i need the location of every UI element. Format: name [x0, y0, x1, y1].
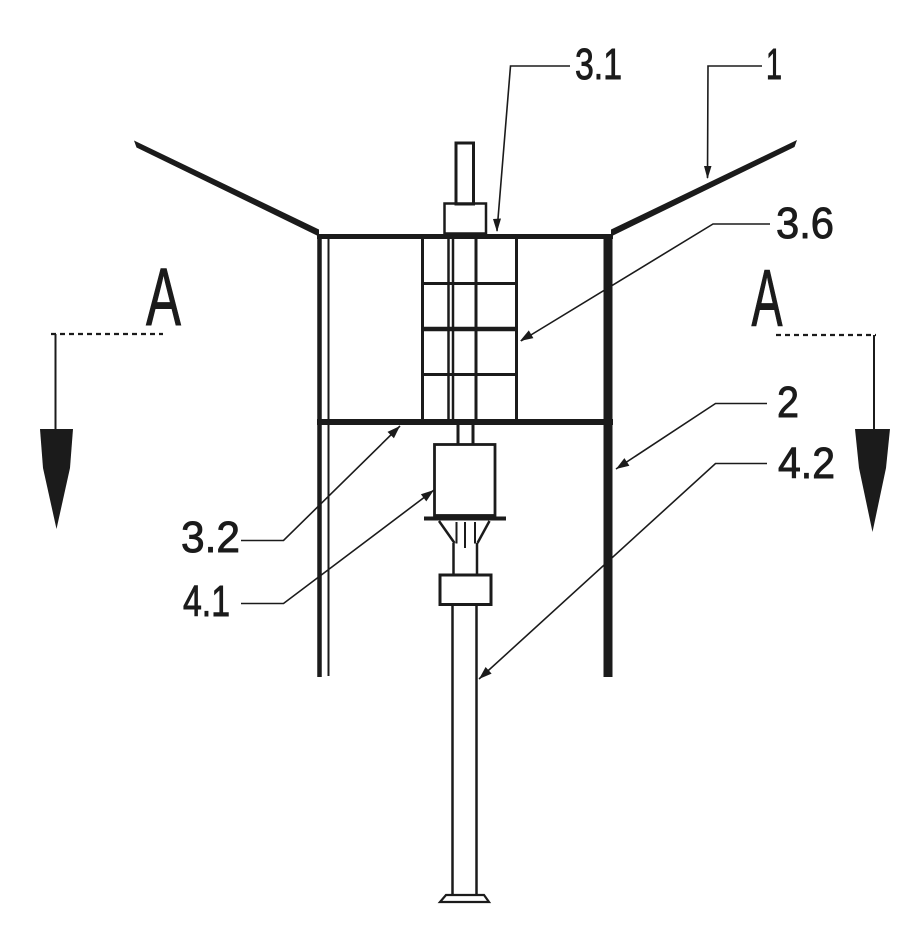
svg-text:1: 1	[766, 40, 782, 89]
svg-text:3.2: 3.2	[181, 513, 240, 562]
svg-text:3.1: 3.1	[575, 40, 622, 89]
svg-text:4.1: 4.1	[183, 577, 230, 626]
svg-text:2: 2	[777, 378, 799, 427]
svg-text:4.2: 4.2	[778, 439, 835, 488]
svg-text:A: A	[752, 254, 783, 344]
svg-text:A: A	[146, 252, 181, 343]
svg-text:3.6: 3.6	[776, 199, 834, 248]
